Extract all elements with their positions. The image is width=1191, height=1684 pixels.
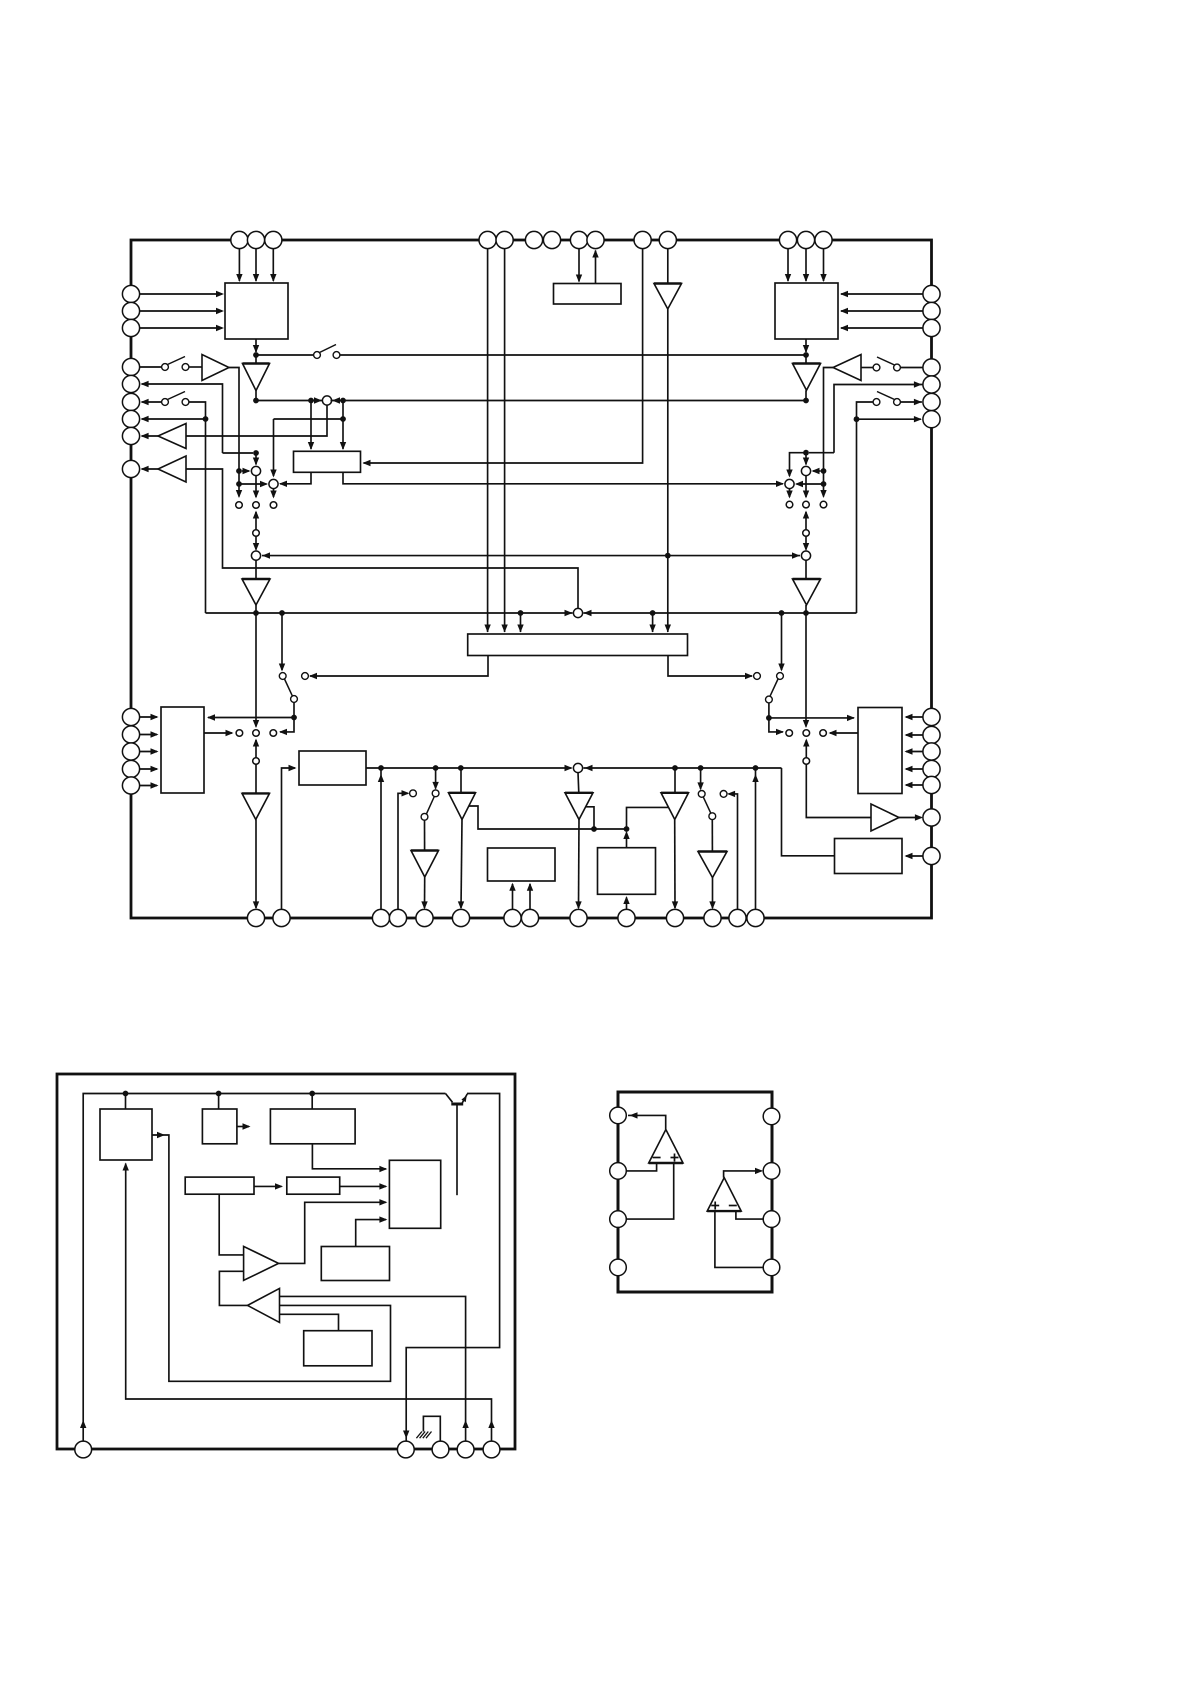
left pin L3 bbox=[122, 319, 139, 336]
wire A18 to A17 bbox=[219, 1271, 247, 1305]
switch SW4 bbox=[873, 364, 880, 371]
mixer M8 bbox=[573, 608, 582, 617]
IC1 outline bbox=[131, 240, 932, 918]
wire rail to U11 bbox=[218, 1094, 220, 1110]
top pin 2 bbox=[247, 231, 264, 248]
wire N3 to A10 bbox=[255, 764, 257, 793]
buffer A8 bbox=[793, 579, 821, 605]
left pin L2 bbox=[122, 302, 139, 319]
right pin R2 bbox=[923, 302, 940, 319]
junction bbox=[123, 1091, 129, 1097]
wire to node column bbox=[280, 718, 294, 732]
wire U2 output to node bbox=[805, 339, 807, 352]
left pin L7 bbox=[122, 410, 139, 427]
wire into M5 bbox=[805, 453, 807, 465]
wire R1 to U2 bbox=[841, 293, 923, 295]
left pin L4 bbox=[122, 358, 139, 375]
amp A9 bbox=[833, 355, 861, 381]
wire A17 output to U14 bbox=[279, 1202, 386, 1263]
IC2 pin 5 bbox=[483, 1441, 500, 1458]
wire U12 to U14 bbox=[312, 1144, 386, 1169]
wire R-row to mixer M5 bbox=[834, 385, 923, 453]
wire L5 to mixer M2 bbox=[223, 452, 254, 454]
wire rail to TP8 bbox=[255, 613, 257, 727]
buffer A16 bbox=[698, 852, 727, 878]
bottom pin B5 bbox=[416, 909, 433, 926]
delay block D1 bbox=[294, 451, 361, 472]
mixer M4 bbox=[251, 551, 260, 560]
op-amp U17 bbox=[649, 1130, 683, 1164]
junction bbox=[698, 765, 704, 771]
op-amp A17 bbox=[244, 1246, 279, 1280]
wire M4 down to A7 bbox=[255, 560, 257, 579]
wire A3 to bus bbox=[805, 390, 807, 400]
wire pin3 to U1 bbox=[272, 249, 274, 281]
wire cross link bbox=[274, 418, 344, 420]
junction bbox=[253, 450, 259, 456]
amp A11 bbox=[871, 804, 899, 831]
wire mute bus left bbox=[256, 354, 314, 356]
wire U17 noninv input bbox=[626, 1163, 673, 1219]
node N4 bbox=[803, 758, 810, 765]
test point TP5 bbox=[803, 501, 810, 508]
block U8 bbox=[598, 848, 656, 895]
wire Lpin to U5 bbox=[140, 785, 157, 787]
wire U4 right leg bbox=[668, 656, 752, 677]
bottom pin B2 bbox=[273, 909, 290, 926]
wire Rpin to U6 bbox=[906, 768, 923, 770]
block U15 bbox=[304, 1331, 372, 1366]
wire pin2 to U1 bbox=[255, 249, 257, 281]
left pin L1 bbox=[122, 285, 139, 302]
wire U16 to U14 bbox=[356, 1220, 386, 1247]
wire bus to SW9 bbox=[700, 768, 702, 789]
op-amp U18 bbox=[707, 1178, 741, 1212]
wire Rpin to U6 bbox=[906, 784, 923, 786]
test point TP6 bbox=[820, 501, 827, 508]
wire A5 input bbox=[186, 405, 327, 436]
buffer A15 bbox=[661, 793, 689, 820]
junction bbox=[203, 416, 209, 422]
wire pin5 to U4 bbox=[504, 249, 506, 632]
left pin L9 bbox=[122, 460, 139, 477]
wire Lpin to U5 bbox=[140, 768, 157, 770]
bottom pin B10 bbox=[618, 909, 635, 926]
wire to mixer M3 bbox=[239, 483, 267, 485]
wire mute bus right bbox=[340, 354, 806, 356]
right pin R8 bbox=[923, 708, 940, 725]
top pin 10 bbox=[634, 231, 651, 248]
wire level bus bbox=[262, 555, 800, 557]
top pin 4 bbox=[479, 231, 496, 248]
wire pinB4 to SW8 bbox=[398, 793, 408, 909]
wire M2 down bbox=[255, 476, 257, 498]
IC2 outline bbox=[57, 1074, 515, 1449]
block U14 bbox=[389, 1160, 440, 1228]
block U10 bbox=[100, 1109, 152, 1160]
buffer A1 bbox=[667, 249, 669, 284]
left pin L12 bbox=[122, 743, 139, 760]
wire node to delay D1 bbox=[342, 401, 344, 450]
right pin R7 bbox=[923, 411, 940, 428]
block U5 bbox=[161, 707, 204, 793]
junction bbox=[308, 398, 314, 404]
junction bbox=[518, 610, 524, 616]
wire Lpin to U5 bbox=[140, 734, 157, 736]
junction bbox=[591, 826, 597, 832]
switch SW1 bbox=[162, 364, 169, 371]
junction bbox=[253, 610, 259, 616]
wire A10 to pin bbox=[255, 820, 257, 909]
wire M9 to A14 bbox=[577, 772, 580, 792]
block U6 bbox=[858, 708, 902, 794]
wire Rpin to U6 bbox=[906, 751, 923, 753]
wire R4 to SW4 bbox=[900, 367, 923, 369]
wire SW4 to A9 bbox=[861, 367, 873, 369]
wire up into TP5 bbox=[805, 512, 807, 533]
wire pin8 to U3 bbox=[578, 249, 580, 282]
right pin R14 bbox=[923, 847, 940, 864]
switch SW3 bbox=[314, 352, 321, 359]
block U7 bbox=[488, 848, 556, 881]
left pin L8 bbox=[122, 427, 139, 444]
wire main rail bbox=[206, 612, 573, 614]
wire to node column b bbox=[769, 718, 783, 732]
buffer A7 bbox=[242, 579, 270, 605]
wire L6 to SW2 bbox=[142, 401, 162, 403]
wire rail to U4 b bbox=[652, 613, 654, 632]
wire L3 to U1 bbox=[140, 327, 222, 329]
wire pin12 to U2 bbox=[787, 249, 789, 281]
junction bbox=[216, 1091, 222, 1097]
wire pin3 ground loop bbox=[423, 1416, 440, 1441]
junction bbox=[236, 481, 242, 487]
wire U6 out to TP12 bbox=[830, 732, 858, 734]
test point TP2 bbox=[253, 502, 260, 509]
wire main rail right bbox=[584, 612, 857, 614]
test point TP3 bbox=[270, 502, 277, 509]
wire A8 to rail bbox=[805, 605, 807, 613]
mixer M9 bbox=[573, 763, 582, 772]
wire A14 side tap bbox=[586, 807, 594, 829]
bottom pin B6 bbox=[452, 909, 469, 926]
bottom pin B4 bbox=[389, 909, 406, 926]
junction bbox=[803, 450, 809, 456]
wire N4 to A11 bbox=[806, 764, 871, 817]
wire pin1 to U1 bbox=[238, 249, 240, 281]
wire R-row bbox=[857, 418, 921, 420]
IC3 pin 2 bbox=[610, 1163, 627, 1180]
wire SW5 to pin bbox=[900, 401, 922, 403]
wire Lpin to U5 bbox=[140, 751, 157, 753]
left pin L6 bbox=[122, 393, 139, 410]
wire A14 to pin bbox=[578, 820, 581, 909]
wire A9 output bbox=[824, 368, 834, 471]
test point TP7 bbox=[236, 730, 243, 737]
mixer M6 bbox=[785, 479, 794, 488]
wire M6 down bbox=[789, 489, 791, 498]
block U13a bbox=[185, 1177, 254, 1194]
wire U3 to pin9 bbox=[595, 251, 597, 284]
junction bbox=[766, 715, 772, 721]
wire amp col down bbox=[823, 471, 825, 497]
wire bus segment bbox=[331, 400, 807, 402]
wire L2 to U1 bbox=[140, 310, 222, 312]
junction bbox=[253, 352, 259, 358]
bottom pin B12 bbox=[704, 909, 721, 926]
switch SW9 bbox=[698, 791, 705, 798]
junction bbox=[803, 352, 809, 358]
right pin R4 bbox=[923, 359, 940, 376]
test point TP11 bbox=[803, 730, 810, 737]
wire bus to U9 bbox=[782, 768, 835, 856]
junction bbox=[821, 481, 827, 487]
junction bbox=[458, 765, 464, 771]
block U1 bbox=[225, 283, 288, 339]
junction bbox=[821, 468, 827, 474]
wire rail to U12 bbox=[311, 1094, 313, 1110]
IC2 pin 3 bbox=[432, 1441, 449, 1458]
junction bbox=[279, 610, 285, 616]
wire U15 to A18 bbox=[280, 1314, 339, 1330]
junction bbox=[650, 610, 656, 616]
IC3 outline bbox=[618, 1092, 772, 1292]
block U9 bbox=[835, 839, 903, 874]
wire M5 bypass to M6 bbox=[790, 453, 807, 476]
top pin 12 bbox=[779, 231, 796, 248]
wire N1 to M4 bbox=[255, 537, 257, 550]
wire pin14 to U2 bbox=[823, 249, 825, 281]
bottom pin B13 bbox=[729, 909, 746, 926]
buffer A2 bbox=[255, 355, 257, 364]
transistor Q1 bbox=[446, 1094, 453, 1103]
buffer A14 bbox=[565, 793, 593, 820]
right pin R1 bbox=[923, 285, 940, 302]
wire Q1 base bbox=[456, 1104, 458, 1195]
wire U13a to U13b bbox=[254, 1185, 282, 1187]
filter block F1 bbox=[299, 751, 366, 785]
top pin 14 bbox=[815, 231, 832, 248]
IC2 pin 2 bbox=[397, 1441, 414, 1458]
wire to U5 in bbox=[208, 717, 294, 719]
junction bbox=[309, 1091, 315, 1097]
switch SW7 bbox=[754, 673, 761, 680]
IC3 pin 5 bbox=[763, 1259, 780, 1276]
bottom pin B7 bbox=[504, 909, 521, 926]
bottom pin B11 bbox=[666, 909, 683, 926]
bottom pin B1 bbox=[247, 909, 264, 926]
wire L5 feedback bbox=[142, 384, 223, 453]
amp A5 bbox=[158, 424, 186, 449]
junction bbox=[624, 826, 630, 832]
wire eq out up bbox=[626, 833, 628, 848]
IC3 pin 4 bbox=[610, 1259, 627, 1276]
IC3 pin 3 bbox=[610, 1211, 627, 1228]
wire rail to U4 bbox=[520, 613, 522, 632]
wire rail to U10 bbox=[125, 1094, 127, 1110]
wire pinB14 up bbox=[755, 768, 757, 909]
test point TP4 bbox=[786, 501, 793, 508]
wire pinB8 to U7 bbox=[529, 884, 531, 909]
wire U11 output arrow bbox=[237, 1126, 249, 1128]
right pin R9 bbox=[923, 726, 940, 743]
junction bbox=[665, 553, 671, 559]
wire R3 to U2 bbox=[841, 327, 923, 329]
right pin R10 bbox=[923, 743, 940, 760]
wire R-pin to U9 bbox=[906, 855, 923, 857]
junction bbox=[753, 765, 759, 771]
wire U17 inv input bbox=[626, 1163, 656, 1171]
wire down to mixer M3 bbox=[273, 419, 275, 476]
wire A12 to pin bbox=[424, 877, 426, 908]
wire U17 output bbox=[628, 1115, 666, 1129]
wire bus to A15 bbox=[674, 768, 676, 793]
wire into M2 bbox=[255, 453, 257, 465]
wire L1 to U1 bbox=[140, 293, 222, 295]
wire U18 output bbox=[724, 1171, 762, 1178]
mixer M1 bbox=[322, 396, 331, 405]
IC3 pin 1 bbox=[610, 1107, 627, 1124]
switch SW5 bbox=[873, 399, 880, 406]
ground bbox=[416, 1432, 422, 1439]
IC3 pin 8 bbox=[763, 1108, 780, 1125]
wire bus segment bbox=[256, 400, 324, 402]
wire L7 row bbox=[142, 418, 204, 420]
amp A6 bbox=[158, 456, 186, 482]
wire A4 output bbox=[229, 368, 239, 471]
junction bbox=[433, 765, 439, 771]
switch SW2 bbox=[162, 399, 169, 406]
IC2 pin 4 bbox=[457, 1441, 474, 1458]
bottom pin B9 bbox=[570, 909, 587, 926]
wire pinB10 to U8 bbox=[626, 898, 628, 910]
wire rail to TP11 bbox=[805, 613, 807, 727]
right pin R11 bbox=[923, 760, 940, 777]
wire A6 input bbox=[186, 469, 578, 609]
wire A13 to pin bbox=[461, 820, 462, 909]
junction bbox=[779, 610, 785, 616]
IC3 pin 7 bbox=[763, 1163, 780, 1180]
IC3 pin 6 bbox=[763, 1211, 780, 1228]
test point TP1 bbox=[236, 502, 243, 509]
wire U13b to U14 bbox=[340, 1185, 386, 1187]
wire to mixer M6 bbox=[797, 483, 824, 485]
wire N3 up to TP8 bbox=[255, 740, 257, 761]
wire R2 to U2 bbox=[841, 310, 923, 312]
wire N4 up to TP11 bbox=[805, 740, 807, 761]
wire pin10 to D1 bbox=[364, 249, 643, 463]
junction bbox=[672, 765, 678, 771]
top pin 1 bbox=[231, 231, 248, 248]
bottom pin B8 bbox=[521, 909, 538, 926]
left pin L14 bbox=[122, 777, 139, 794]
left pin L10 bbox=[122, 708, 139, 725]
top pin 9 bbox=[587, 231, 604, 248]
switch SW8 bbox=[410, 790, 417, 797]
block U12 bbox=[270, 1109, 355, 1144]
test point TP8 bbox=[253, 730, 260, 737]
top pin 7 bbox=[543, 231, 560, 248]
junction bbox=[253, 398, 259, 404]
wire A13 side tap bbox=[469, 806, 627, 829]
wire pinB13 to SW9 bbox=[729, 794, 738, 910]
block U13b bbox=[287, 1177, 340, 1194]
node N1 bbox=[253, 530, 260, 537]
wire pinB2 to F1 bbox=[282, 768, 296, 909]
wire VCC rail bbox=[83, 1094, 445, 1442]
wire signal bus y768 right bbox=[584, 767, 782, 769]
buffer A13 bbox=[460, 768, 462, 793]
IC2 pin 1 bbox=[75, 1441, 92, 1458]
wire N2 to M7 bbox=[805, 537, 807, 550]
mixer M5 bbox=[801, 466, 810, 475]
wire SW5 down bbox=[857, 402, 874, 613]
junction bbox=[378, 765, 384, 771]
node N3 bbox=[253, 758, 260, 765]
wire SW8 to A12 bbox=[424, 820, 426, 850]
block U4 bbox=[468, 634, 688, 656]
wire SW9 to A16 bbox=[711, 820, 713, 852]
right pin R12 bbox=[923, 776, 940, 793]
top pin 8 bbox=[570, 231, 587, 248]
left pin L11 bbox=[122, 726, 139, 743]
junction bbox=[291, 715, 297, 721]
wire Q1 emitter to rail bbox=[406, 1094, 499, 1442]
test point TP10 bbox=[786, 730, 793, 737]
bottom pin B3 bbox=[372, 909, 389, 926]
wire D1 right leg bbox=[343, 472, 783, 484]
buffer A3 bbox=[805, 355, 807, 364]
wire rail to SW6 bbox=[281, 613, 283, 670]
test point TP9 bbox=[270, 730, 277, 737]
right pin R13 bbox=[923, 809, 940, 826]
op-amp A18 bbox=[248, 1288, 280, 1322]
left pin L13 bbox=[122, 760, 139, 777]
wire D1 left leg bbox=[280, 472, 311, 484]
right pin R5 bbox=[923, 376, 940, 393]
block U11 bbox=[202, 1109, 237, 1144]
wire M5 down bbox=[805, 476, 807, 498]
mixer M3 bbox=[269, 479, 278, 488]
junction bbox=[340, 398, 346, 404]
wire A2 to bus bbox=[255, 391, 257, 401]
wire U4 left leg bbox=[310, 656, 488, 677]
wire U18 noninv input bbox=[715, 1211, 763, 1267]
top pin 11 bbox=[659, 231, 676, 248]
wire M3 down bbox=[273, 489, 275, 498]
wire SW6 common bbox=[293, 702, 295, 717]
block U16 bbox=[321, 1247, 389, 1281]
wire M7 down to A8 bbox=[805, 560, 807, 579]
right pin R6 bbox=[923, 393, 940, 410]
wire U10 output bbox=[152, 1135, 391, 1381]
wire U18 inv input bbox=[736, 1211, 763, 1219]
test point TP12 bbox=[820, 730, 827, 737]
wire up into TP2 bbox=[255, 512, 257, 533]
right pin R3 bbox=[923, 319, 940, 336]
top pin 3 bbox=[265, 231, 282, 248]
wire pin4 to U4 bbox=[487, 249, 489, 632]
top pin 6 bbox=[525, 231, 542, 248]
top pin 5 bbox=[496, 231, 513, 248]
wire U1 output to node bbox=[255, 339, 257, 352]
wire signal bus y768 bbox=[366, 767, 572, 769]
wire SW2 down bbox=[189, 402, 206, 613]
wire L4 to SW1 bbox=[140, 366, 162, 368]
buffer A10 bbox=[242, 793, 270, 819]
wire Rpin to U6 bbox=[906, 716, 923, 718]
wire Rpin to U6 bbox=[906, 734, 923, 736]
